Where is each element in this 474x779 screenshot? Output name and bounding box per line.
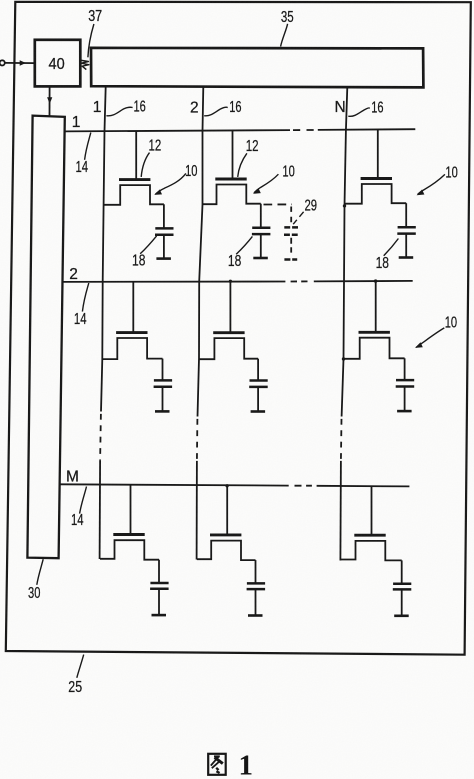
junction colN row1: [343, 204, 346, 207]
flexible link 37: [81, 60, 89, 69]
data line col 1 (16): [101, 86, 106, 411]
transistor TR1CN gate stub and gate bar and channel: [377, 130, 379, 179]
capacitor CR1C2: [260, 204, 262, 228]
capacitor CR2C2: [257, 359, 259, 381]
leader 18 R1C2: [236, 236, 252, 254]
ground electrode cell RNC2: [255, 589, 257, 615]
leader 25: [77, 655, 84, 678]
capacitor CRNCN: [401, 560, 403, 583]
capacitor CRNC2: [255, 560, 257, 583]
leader 12 R1C2: [238, 153, 247, 177]
leader 16 col2: [204, 107, 228, 116]
ground electrode cell R1C2: [260, 234, 262, 258]
leader 14 row2: [82, 283, 88, 312]
data line col N (16): [342, 87, 348, 416]
ground electrode cell R2CN: [404, 387, 406, 412]
ground electrode cell RNCN: [401, 589, 403, 615]
input terminal circle: [0, 60, 5, 65]
leader label 10 R1CN: [418, 174, 445, 194]
leader 35: [281, 24, 288, 47]
gate line row 2 dashed gap: [291, 280, 308, 282]
leader 12 R1C1: [141, 153, 149, 177]
gate line row M right: [317, 485, 410, 488]
data line col 2 dashed: [196, 419, 199, 461]
leader 16 colN: [348, 108, 370, 116]
capacitor CRNC1: [158, 560, 160, 583]
leader label 10 R1C1: [155, 173, 186, 194]
junction colN row2: [342, 357, 345, 360]
gate line row 2 (14): [63, 281, 285, 283]
ground electrode cell RNC1: [158, 589, 160, 615]
transistor TR1C1 gate stub and gate bar and channel: [135, 131, 137, 180]
junction gate stub R2CN: [374, 279, 377, 282]
data line col 2 (16): [198, 87, 204, 417]
data driver 35: [91, 48, 423, 88]
data line col 1 dashed: [99, 414, 102, 461]
leader label 10 R2CN: [416, 328, 444, 348]
leader 18 R1C1: [140, 236, 156, 254]
arrowhead label 10 R2CN: [415, 342, 423, 348]
ground electrode cell R2C2: [257, 387, 259, 412]
gate driver 30: [27, 116, 64, 559]
capacitor CR1CN: [405, 203, 407, 227]
gate line row 1 right: [318, 128, 416, 131]
gate line row 1 (14): [65, 130, 290, 131]
caption glyph tu (figure): [208, 754, 226, 775]
arrowhead down: [47, 97, 52, 104]
junction gate stub RMC2: [225, 484, 228, 487]
gate line row 2 right: [314, 280, 413, 283]
scan noise overlay: [0, 0, 1, 1]
leader 14 row1: [85, 133, 91, 160]
ground electrode phantom pixel: [284, 258, 297, 261]
transistor TR2C2 gate stub and gate bar and channel: [229, 281, 231, 332]
dashed wire down phantom pixel: [290, 207, 292, 226]
gate line row M dashed gap: [295, 485, 312, 487]
arrowhead label 10 R1CN: [417, 190, 425, 196]
leader label 10 R1C2: [254, 174, 278, 193]
arrowhead input: [20, 60, 26, 65]
transistor TR2C1 gate stub and gate bar and channel: [132, 281, 134, 332]
transistor TRNC2 gate stub and gate bar and channel: [226, 486, 228, 535]
capacitor CR2C1: [162, 359, 164, 381]
data line col N dashed: [340, 419, 343, 461]
capacitor C29 phantom bottom plate: [284, 234, 298, 237]
leader 37: [88, 24, 94, 57]
wire controller to gate driver: [49, 87, 51, 116]
capacitor C29 phantom top plate: [284, 226, 298, 229]
leader 30: [37, 559, 43, 585]
data line col 1 lower: [99, 461, 102, 559]
ground electrode cell R1C1: [163, 235, 165, 259]
data line col N lower: [339, 461, 342, 561]
gate line row 1 dashed gap: [293, 129, 314, 131]
ground electrode cell R1CN: [405, 234, 407, 258]
leader 18 R1CN: [384, 239, 399, 256]
transistor TR2CN gate stub and gate bar and channel: [375, 281, 377, 332]
ground electrode cell R2C1: [162, 387, 164, 412]
leader 16 col1: [106, 107, 132, 116]
capacitor CR2CN: [404, 358, 406, 380]
dashed wire to phantom pixel 29: [264, 203, 293, 205]
transistor TRNCN gate stub and gate bar and channel: [371, 486, 373, 535]
leader 14 rowM: [80, 487, 87, 514]
transistor TRNC1 gate stub and gate bar and channel: [130, 485, 132, 534]
dashed wire below phantom capacitor: [290, 238, 292, 253]
wire input to controller: [5, 62, 35, 64]
arrowhead label 10 R1C2: [253, 188, 261, 194]
data line col 2 lower: [196, 461, 198, 560]
leader 29 dashed: [293, 212, 303, 224]
junction gate stub R2C2: [229, 280, 232, 283]
arrowhead label 10 R1C1: [154, 189, 162, 195]
capacitor CR1C1: [163, 204, 165, 228]
gate line row M (14): [61, 484, 289, 485]
controller 40: [35, 40, 81, 87]
transistor TR1C2 gate stub and gate bar and channel: [232, 130, 234, 179]
